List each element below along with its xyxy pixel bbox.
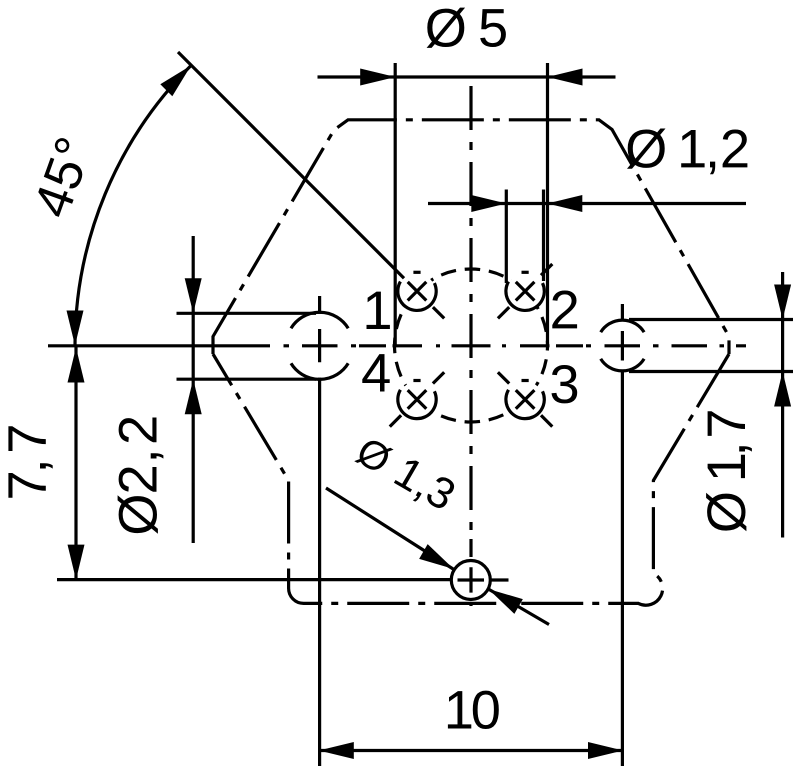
pin label 4 — [362, 354, 389, 391]
arrow Ø1,2 left — [471, 195, 506, 212]
arrow Ø2,2 bottom — [185, 379, 202, 414]
arrow 45 arc top — [160, 66, 191, 97]
arrow 45 arc bottom — [67, 311, 84, 346]
arrow Ø1,3 lower — [488, 589, 523, 614]
arrow Ø2,2 top — [185, 278, 202, 313]
arrow Ø1,7 top — [774, 285, 791, 320]
bottom hole crosshair — [458, 578, 509, 581]
arrow Ø1,3 upper — [419, 544, 454, 569]
label O5 — [427, 8, 506, 48]
left lug hole Ø2.2 — [291, 312, 348, 379]
45 degree dimension arc — [75, 66, 191, 346]
arrow 10 left — [319, 742, 354, 759]
dim Ø1,2 extension lines — [506, 190, 543, 284]
label 45deg — [38, 138, 82, 217]
dim Ø2,2 line — [192, 236, 195, 543]
vertical centerline — [469, 86, 472, 606]
pin 2 cross — [516, 282, 535, 301]
pin 3 hole — [507, 381, 543, 417]
dim Ø5 extension lines — [395, 63, 547, 345]
arrow Ø5 left — [360, 69, 395, 86]
dim Ø1,7 line — [781, 272, 784, 538]
arrow 7,7 top — [68, 348, 85, 383]
arrow 7,7 bottom — [68, 545, 85, 580]
arrow Ø5 right — [548, 69, 583, 86]
label 10 — [448, 691, 499, 729]
arrow 10 right — [588, 742, 623, 759]
pin 3 centerline marks — [498, 372, 552, 426]
dim 7,7 line — [74, 347, 77, 580]
pin label 3 — [552, 365, 578, 403]
pin 2 centerline marks — [498, 264, 552, 318]
right lug edges — [629, 320, 793, 372]
leader Ø1,3 — [326, 488, 549, 625]
pin 2 hole — [507, 273, 543, 309]
pin pitch circle Ø5 (dashed) — [395, 269, 548, 422]
pin 1 cross — [408, 282, 427, 301]
pin 1 centerline mark — [433, 307, 444, 318]
arrow Ø1,7 bottom — [774, 372, 791, 407]
45 degree ray through pin 1 — [178, 52, 404, 278]
horizontal centerline — [48, 344, 746, 347]
dim 10 line — [319, 749, 623, 752]
connector body outline (phantom) — [213, 120, 729, 605]
label O1,3 — [354, 441, 454, 508]
pin 4 centerline marks — [390, 372, 444, 426]
label O2,2 — [118, 418, 164, 534]
dim Ø5 line — [318, 75, 616, 78]
right lug hole Ø1.7 — [601, 320, 644, 371]
pin label 2 — [552, 291, 577, 329]
arrow Ø1,2 right — [547, 195, 582, 212]
label O1,2 — [627, 129, 747, 175]
pin 4 hole — [399, 381, 435, 417]
label 7,7 — [8, 426, 52, 497]
label O1,7 — [706, 411, 752, 531]
left hole vertical centerline / ext line for 10 — [318, 296, 321, 766]
dim 7,7 lower extension line — [57, 578, 451, 581]
pin 3 cross — [516, 390, 535, 409]
dim Ø1,2 line — [428, 202, 746, 205]
pin 4 cross — [408, 390, 427, 409]
right hole vertical centerline / ext line for 10 — [621, 304, 624, 766]
bottom hole Ø1.3 — [451, 561, 490, 600]
left lug edges — [177, 313, 317, 379]
pin 1 hole — [399, 273, 435, 309]
pin label 1 — [367, 292, 390, 329]
